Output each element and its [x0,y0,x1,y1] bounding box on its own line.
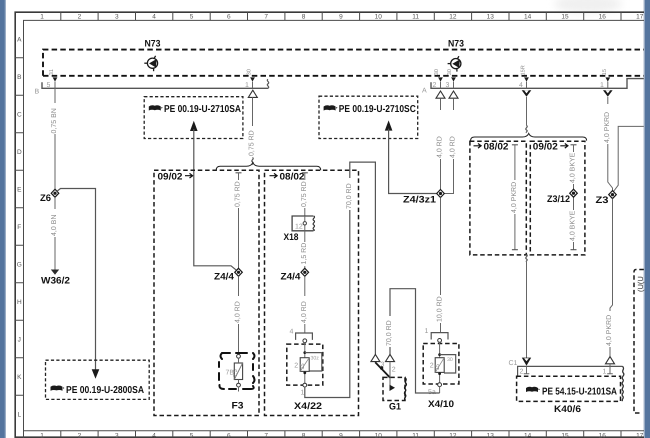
N73 pin 3 (terminal 30) [446,69,456,89]
wire label 0,75 BN [50,103,58,134]
socket X4/10 dashed box [423,344,459,385]
battery G1 dashed box [383,377,405,400]
svg-text:2: 2 [392,367,396,374]
svg-text:30z: 30z [311,356,320,362]
svg-text:4,0 RD: 4,0 RD [301,301,308,323]
svg-text:2: 2 [430,363,434,370]
svg-text:14: 14 [524,14,532,21]
frame row letters left [17,36,22,418]
frame column numbers top [40,14,643,21]
svg-text:N73: N73 [145,39,161,50]
svg-text:15: 15 [435,364,441,370]
fuse F3 bottom terminal circle [237,383,241,387]
svg-text:7: 7 [264,433,268,438]
svg-text:2: 2 [520,369,524,376]
svg-text:6: 6 [227,14,231,21]
X4/22 pin 1 terminal [301,383,307,396]
socket X4/10 pin 1 bracket [425,328,449,342]
svg-text:4,0 BKYE: 4,0 BKYE [570,210,577,241]
wire Z4/4 down to X4/22 (4,0 RD) [299,276,308,333]
wire N73 pin5 to Z6 (0,75 BN) [54,82,56,190]
svg-text:2: 2 [78,14,82,21]
svg-text:10,0 RD: 10,0 RD [437,296,444,322]
socket X4/22 dashed box [287,344,323,385]
book icon (2800SA) [51,385,65,390]
svg-text:30: 30 [447,357,453,363]
wire pin3 down (4,0 RD) [441,98,454,193]
svg-text:6: 6 [227,433,231,438]
wire 0,75 RD inside 08/02 [299,173,308,216]
bus wire segment B (left) [42,82,268,88]
svg-text:F3: F3 [232,401,244,412]
svg-text:15: 15 [561,14,569,21]
G1 internal terminal [390,377,396,391]
wire 4,0 PKRD inside 08/02 [510,145,519,250]
svg-text:30: 30 [447,69,453,75]
harness section box 09/02 (left) [154,170,259,415]
PE 00.19-U-2710SC dashed box [319,96,418,138]
harness section box 09/02 (right pair, right) [530,141,585,255]
left window border strip [0,0,6,438]
svg-text:70,0 RD: 70,0 RD [386,320,393,346]
svg-text:17: 17 [636,14,644,21]
svg-text:4,0 PKRD: 4,0 PKRD [604,112,611,143]
svg-text:12: 12 [449,14,457,21]
squiggle C1 wire below harness [526,255,527,262]
arrow into 2800SA box [92,369,100,379]
arrow up into 2710SA box [190,121,198,131]
svg-text:16: 16 [599,433,607,438]
svg-text:4: 4 [290,329,294,336]
wire Z4/4 down to fuse F3 (4,0 RD) [233,276,242,354]
09/02 label with arrow (right pair) [533,142,568,153]
08/02 label with arrow (right pair) [474,142,509,153]
svg-text:3: 3 [446,82,450,89]
svg-text:9: 9 [339,433,343,438]
svg-text:1: 1 [245,82,249,89]
frame column numbers bottom (cut) [40,433,643,438]
wire 2710SC down to Z4/3z1 [389,129,437,194]
wire 2710SA down to Z4/4 (left) [194,129,237,270]
svg-text:PE 54.15-U-2101SA: PE 54.15-U-2101SA [542,387,617,398]
svg-text:E: E [17,186,22,193]
G1 right zigzag [404,378,406,400]
harness brace (right, over 08/02 and 09/02) [471,133,587,140]
fuse F3 scalloped dashed outline [219,353,255,389]
svg-text:PE 00.19-U-2710SC: PE 00.19-U-2710SC [339,104,416,115]
battery terminal arrow G1 pin 2 [386,354,396,373]
svg-text:3: 3 [115,433,119,438]
svg-text:X4/10: X4/10 [428,399,454,410]
svg-text:Z6: Z6 [40,193,51,204]
squiggle end of pin4 wire [526,126,527,133]
harness section box 08/02 (right pair, left) [470,141,526,255]
svg-text:H: H [17,299,22,306]
svg-text:4,0 RD: 4,0 RD [437,136,444,158]
N73 symbol (left, ignition switch symbol) [144,56,157,71]
svg-text:13: 13 [487,14,495,21]
svg-text:10: 10 [375,14,383,21]
svg-text:C: C [17,111,22,118]
svg-text:K: K [17,374,22,381]
svg-text:W36/2: W36/2 [41,276,70,287]
wire label 70,0 RD (riser) [344,178,353,210]
svg-text:0,75 RD: 0,75 RD [301,181,308,207]
PE 00.19-U-2800SA dashed box [46,360,150,399]
socket X4/22 pin 4 bracket [290,329,313,343]
wire label 4,0 RD (pin3) [448,110,456,159]
svg-text:1: 1 [40,14,44,21]
N73 symbol (right, ignition switch symbol) [448,56,461,71]
svg-text:4: 4 [152,433,156,438]
svg-text:11: 11 [412,433,419,438]
svg-text:1: 1 [603,369,607,376]
bus wire segment A (right) [431,79,644,89]
svg-text:(U(U: (U(U [636,276,645,292]
N73 pin 2 (terminal 30) [433,69,443,89]
svg-text:Z3: Z3 [596,195,609,206]
connector sleeve Z4/4 (right) [301,268,309,276]
svg-text:X18: X18 [284,232,299,243]
wire Z4/3z1 down to X4/10 (10,0 RD) [435,198,443,333]
svg-text:L: L [17,411,21,418]
svg-text:7B: 7B [226,370,235,377]
08/02 label with arrow [270,172,305,183]
wire label 4,0 PKRD (upper) [603,104,611,144]
svg-text:4,0 PKRD: 4,0 PKRD [606,315,613,346]
wire label 4,0 BN [50,209,58,237]
wire pin1 down (0,75 RD) [252,97,254,126]
book icon (2101SA) [526,387,540,392]
svg-text:7,5: 7,5 [233,369,239,377]
svg-text:70,0 RD: 70,0 RD [346,183,353,209]
svg-text:5: 5 [190,433,194,438]
connector arrow below bus at pin2 [436,91,445,98]
connector sleeve Z4/4 (left) [235,268,243,276]
svg-text:08/02: 08/02 [484,142,509,153]
wire X18 to Z4/4 right (1,5 RD) [299,231,308,268]
svg-text:F: F [17,224,21,231]
svg-text:8: 8 [302,433,306,438]
connector X18 [292,216,314,231]
arrow into K40/6 (pin 1, hollow up) [606,357,615,364]
09/02 label with arrow [158,172,193,183]
svg-text:1: 1 [301,390,305,397]
arrow up into 2710SC box [385,120,393,130]
svg-text:12: 12 [449,433,457,438]
svg-text:4,0 RD: 4,0 RD [450,136,457,158]
svg-text:B: B [17,74,21,81]
svg-text:15R: 15R [521,65,527,75]
svg-text:8: 8 [302,14,306,21]
svg-text:2: 2 [78,433,82,438]
wire pin2 down to Z4/3z1 (4,0 RD) [440,98,442,193]
frame row ticks left [15,58,23,396]
svg-text:30: 30 [434,69,440,75]
N73 pin 5 (terminal 31) [47,69,58,89]
harness brace (left, over 09/02 and 08/02) [216,162,321,170]
svg-text:1: 1 [600,82,604,89]
svg-text:X4/22: X4/22 [294,401,322,412]
connector arrow below bus at pin3 [449,91,458,98]
svg-text:4,0 RD: 4,0 RD [235,301,242,323]
svg-text:A: A [422,88,427,95]
battery terminal arrow G1 pin 3 [371,354,385,368]
X4/22 internal contact [294,343,322,385]
N73 pin 1 (terminal 30) [245,69,255,89]
svg-text:16: 16 [599,14,607,21]
svg-text:11: 11 [412,14,419,21]
wire pin1b down to Z3 (4,0 PKRD) [608,97,613,192]
wire G1 pin2 to X4/10 5a (70,0 RD) [385,289,440,393]
bus B end squiggle [267,79,268,88]
solder joint Z3 [609,191,617,199]
svg-text:09/02: 09/02 [158,172,183,183]
svg-text:Z4/3z1: Z4/3z1 [403,195,437,206]
right window border strip [644,0,650,438]
svg-text:09/02: 09/02 [533,142,558,153]
wire Z6 to ground W36/2 (4,0 BN) [54,197,56,270]
PE 54.15-U-2101SA dashed box (K40/6) [517,376,621,401]
dashed boundary right of K40/6 [634,270,644,414]
fuse F3 top terminal circle [237,354,241,358]
ground terminal end symbol [51,270,59,275]
svg-text:C1: C1 [509,360,518,367]
battery clamp switch line [375,362,390,378]
book icon (2710SC) [324,105,338,110]
svg-text:12: 12 [295,224,303,231]
control unit N73 dashed box [43,50,644,76]
N73 pin 4 (terminal 15R) [519,65,529,89]
connector arrow below bus at pin1 [248,90,257,97]
svg-text:15: 15 [300,363,306,369]
wire Z6 to PE 2800SA box [57,189,96,370]
svg-text:B: B [35,89,40,96]
arrow into K40/6 (pin 2, filled) [522,358,531,366]
svg-text:31: 31 [49,69,55,75]
svg-text:4,0 BKYE: 4,0 BKYE [570,152,577,183]
wire C1 down to K40/6 [526,262,528,358]
svg-text:15: 15 [561,433,569,438]
svg-text:D: D [17,149,22,156]
svg-text:10: 10 [375,433,383,438]
K40/6 pin 1 stub [603,366,613,375]
svg-text:15: 15 [602,69,608,75]
svg-text:Z3/12: Z3/12 [547,194,570,205]
svg-text:PE 00.19-U-2710SA: PE 00.19-U-2710SA [164,104,241,115]
svg-text:0,75 RD: 0,75 RD [235,181,242,207]
svg-text:14: 14 [524,433,532,438]
solder joint Z4/3z1 [437,190,445,198]
wire stub below F3 [238,387,240,392]
svg-text:1: 1 [40,433,44,438]
relay module K40/6 solid outline with zigzag [518,366,624,401]
wire pin4 down to harness [526,97,528,126]
svg-text:4: 4 [519,82,523,89]
svg-text:17: 17 [636,433,644,438]
K40/6 pin 2 stub [520,366,530,375]
svg-text:K40/6: K40/6 [554,404,581,415]
svg-text:0,75 BN: 0,75 BN [51,108,58,133]
svg-text:9: 9 [339,14,343,21]
svg-text:A: A [17,36,22,43]
X4/10 pin 5a terminal [428,383,442,396]
wire label 4,0 RD (pin2) [435,110,443,159]
wire 4,0 BKYE inside 09/02 [568,145,577,250]
svg-text:4,0 PKRD: 4,0 PKRD [511,182,518,213]
svg-text:0,75 RD: 0,75 RD [249,130,256,156]
svg-text:PE 00.19-U-2800SA: PE 00.19-U-2800SA [66,385,144,396]
connector arrow below bus at pin4 (down) [522,90,532,97]
connector sleeve Z6 [51,189,59,197]
svg-text:1,5 RD: 1,5 RD [301,243,308,265]
svg-text:2: 2 [433,82,437,89]
svg-text:13: 13 [487,433,495,438]
svg-text:3: 3 [115,14,119,21]
svg-text:2: 2 [294,363,298,370]
svg-text:Z4/4: Z4/4 [281,272,302,283]
fuse F3 element [226,358,243,383]
svg-text:5: 5 [190,14,194,21]
svg-text:J: J [18,336,21,343]
svg-text:4,0 BN: 4,0 BN [51,215,58,236]
N73 pin 1b (terminal 15) [600,69,610,89]
svg-text:Z4/4: Z4/4 [214,272,235,283]
svg-text:4: 4 [152,14,156,21]
wire X4/22 pin1 to 70,0 RD riser [305,162,376,397]
wire 0,75 RD inside 09/02 [233,173,242,268]
X4/10 internal contact [430,342,456,384]
svg-text:G1: G1 [389,402,402,413]
svg-text:5: 5 [47,82,51,89]
book icon (2710SA) [149,105,163,110]
squiggle end of 0,75 RD wire [252,158,253,165]
solder joint Z3/12 [570,189,578,197]
wire Z3 down to K40/6 (4,0 PKRD) [605,199,614,357]
harness section box 08/02 (middle) [265,170,359,415]
svg-text:G: G [17,261,22,268]
connector arrow below bus at pin1b (down) [603,90,613,97]
wire from right edge to Z3 [614,126,644,191]
svg-text:30: 30 [247,69,253,75]
PE 00.19-U-2710SA dashed box [144,97,243,139]
svg-text:1: 1 [425,328,429,335]
svg-text:N73: N73 [448,39,464,50]
svg-text:7: 7 [264,14,268,21]
